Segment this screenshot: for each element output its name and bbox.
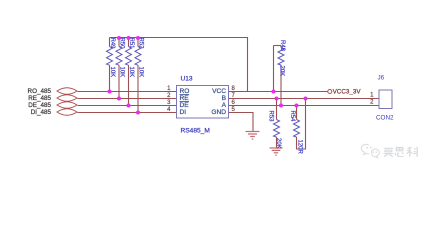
svg-text:R51: R51 — [128, 38, 134, 50]
svg-text:U13: U13 — [181, 76, 193, 83]
svg-text:R49: R49 — [109, 38, 115, 50]
svg-text:VCC3_3V: VCC3_3V — [333, 89, 362, 96]
svg-text:B: B — [222, 95, 227, 102]
svg-text:10K: 10K — [109, 67, 115, 78]
svg-text:DE: DE — [180, 102, 190, 109]
svg-text:GND: GND — [211, 109, 226, 116]
svg-text:RO: RO — [180, 88, 190, 95]
svg-text:RE_485: RE_485 — [28, 95, 51, 102]
svg-text:10K: 10K — [119, 67, 125, 78]
svg-text:RE: RE — [180, 95, 190, 102]
svg-text:VCC: VCC — [212, 88, 226, 95]
svg-text:DE_485: DE_485 — [28, 102, 51, 109]
svg-text:120R: 120R — [297, 140, 303, 155]
svg-text:R50: R50 — [119, 38, 125, 50]
svg-text:R52: R52 — [138, 38, 144, 50]
svg-text:DI_485: DI_485 — [31, 109, 52, 116]
svg-text:10K: 10K — [128, 67, 134, 78]
svg-text:R48: R48 — [279, 40, 285, 52]
svg-text:A: A — [222, 102, 227, 109]
svg-text:DI: DI — [180, 109, 187, 116]
svg-text:10K: 10K — [138, 67, 144, 78]
svg-text:R54: R54 — [289, 111, 295, 123]
svg-text:20K: 20K — [279, 66, 285, 77]
svg-text:RS485_M: RS485_M — [181, 128, 210, 135]
svg-text:RO_485: RO_485 — [28, 88, 52, 95]
svg-text:J6: J6 — [378, 75, 385, 82]
svg-text:20K: 20K — [275, 138, 281, 149]
svg-text:CON2: CON2 — [376, 115, 394, 122]
svg-text:R53: R53 — [268, 111, 274, 123]
